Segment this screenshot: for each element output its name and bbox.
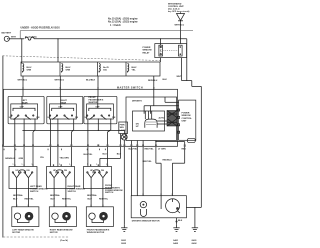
svg-text:YEL/GRN: YEL/GRN (60, 158, 70, 160)
master switch box (4, 89, 178, 146)
svg-text:DRIVER'S: DRIVER'S (132, 101, 142, 103)
fuse F1 80A (25, 35, 37, 40)
svg-text:RED/YEL: RED/YEL (145, 149, 155, 151)
lower switch left rear (9, 167, 48, 194)
svg-text:GRN: GRN (66, 70, 71, 72)
svg-text:BLU: BLU (88, 199, 93, 201)
switch module front passenger (84, 96, 117, 124)
svg-text:NEUTRAL: NEUTRAL (13, 194, 24, 197)
diode U1 (ICU driver triangle) (177, 12, 185, 21)
wire window lock switch down (100, 134, 121, 167)
motor left rear M1 (12, 207, 39, 234)
ground G501 (121, 224, 128, 245)
wire WHT/BLU from ICU to relay (175, 21, 185, 44)
svg-text:BLU/BLK: BLU/BLK (86, 79, 96, 81)
svg-text:BLK: BLK (163, 79, 168, 81)
switch to motor wires 1 (13, 189, 34, 207)
svg-text:OFF: OFF (95, 107, 100, 109)
relay contacts driver (dark blocks) (167, 111, 177, 127)
svg-text:BLU/YEL: BLU/YEL (84, 154, 94, 156)
neutral labels (13, 194, 98, 197)
wire color labels row (5, 149, 186, 164)
svg-text:1: 1 (96, 164, 97, 166)
svg-text:1: 1 (87, 164, 88, 166)
svg-text:BLU: BLU (13, 199, 18, 201)
svg-text:NEUTRAL: NEUTRAL (87, 194, 98, 197)
svg-text:1 : Clutch: 1 : Clutch (110, 24, 121, 27)
wire battery bypass down right (186, 39, 188, 81)
svg-text:WINDOW: WINDOW (182, 115, 191, 117)
bulb ground wire (123, 140, 125, 224)
wire coil C to module 3 (86, 76, 98, 96)
svg-text:DRIVER'S WINDOW MOTOR: DRIVER'S WINDOW MOTOR (132, 221, 160, 223)
driver box exits (131, 141, 184, 196)
svg-text:OFF: OFF (58, 107, 63, 109)
svg-text:GRN: GRN (19, 158, 24, 160)
illumination bulb (121, 134, 127, 140)
svg-text:BATTERY: BATTERY (2, 32, 12, 35)
svg-text:BLK: BLK (178, 220, 183, 222)
wire feed into coil box B (57, 39, 59, 62)
svg-text:MOTOR: MOTOR (12, 232, 20, 234)
battery B1 (2, 32, 12, 42)
junction dots (21, 38, 161, 142)
svg-text:BLK: BLK (117, 154, 122, 156)
svg-text:1: 1 (69, 164, 70, 166)
power window relay K1 (143, 44, 187, 58)
svg-text:WHT/BLU: WHT/BLU (55, 79, 65, 81)
svg-text:POWER: POWER (182, 113, 190, 115)
switch to motor wires 3 (88, 189, 109, 207)
svg-text:DN: DN (101, 170, 105, 172)
driver switch contacts (133, 111, 168, 131)
power window control unit (178, 100, 196, 140)
svg-text:AUTO: AUTO (159, 117, 165, 120)
svg-text:RED/YEL: RED/YEL (99, 199, 109, 201)
wire feed inside driver section (144, 97, 179, 114)
svg-text:BLU/: BLU/ (27, 67, 32, 69)
svg-text:SWITCH: SWITCH (30, 191, 39, 193)
svg-text:SWITCH: SWITCH (105, 192, 114, 194)
svg-text:(Cont'd): (Cont'd) (60, 239, 68, 242)
wire relay coil to ground stub (160, 58, 162, 62)
svg-text:WINDOW: WINDOW (143, 50, 152, 52)
svg-text:DN: DN (136, 123, 140, 125)
switch to motor wires 2 (51, 189, 72, 207)
svg-text:WHT/BLU: WHT/BLU (18, 79, 28, 81)
pin number labels above switch connectors (13, 164, 108, 166)
svg-text:MASTER: MASTER (89, 101, 98, 104)
svg-text:MOTOR: MOTOR (50, 232, 58, 234)
wire feed into coil box A (21, 39, 23, 64)
ground G401 b (192, 207, 199, 244)
continuation dashed line (3, 237, 70, 242)
connector squares row (2, 144, 186, 146)
wire motor right to feed (186, 206, 201, 208)
svg-text:G402: G402 (173, 242, 179, 245)
coil L3 (99, 64, 110, 73)
motor right rear M2 (49, 207, 76, 234)
svg-text:DN: DN (27, 170, 31, 172)
svg-text:SWITCH: SWITCH (68, 191, 77, 193)
svg-text:1: 1 (13, 164, 14, 166)
svg-text:DN: DN (75, 117, 79, 119)
wire coil B to module 2 (55, 76, 65, 96)
svg-text:RED/BLU: RED/BLU (148, 80, 158, 82)
svg-text:RED/YEL: RED/YEL (62, 199, 72, 201)
svg-text:RED/YEL: RED/YEL (143, 161, 153, 163)
lower switch right rear (47, 167, 86, 194)
svg-text:RED/BLU: RED/BLU (163, 159, 173, 161)
svg-text:WINDOW MOTOR: WINDOW MOTOR (87, 232, 105, 234)
wire drop to relay coil (160, 39, 162, 45)
switch module left rear (8, 96, 44, 124)
wire coil D to driver switch RED/BLU (148, 76, 167, 97)
lower switch front passenger (84, 167, 123, 195)
driver window motor box (131, 196, 186, 223)
driver section box (126, 97, 177, 141)
svg-text:DN: DN (36, 117, 40, 119)
motor front passenger M3 (86, 207, 113, 234)
svg-text:UNDER - HOOD FUSE/RELAY BOX: UNDER - HOOD FUSE/RELAY BOX (21, 27, 61, 30)
svg-text:G401: G401 (173, 239, 179, 242)
coil L2 (62, 64, 71, 73)
coil L4 (128, 64, 137, 73)
bus wire from modules to bulb (22, 130, 124, 134)
svg-text:G501: G501 (121, 240, 127, 242)
integrated control unit label (168, 3, 190, 14)
svg-text:RELAY: RELAY (143, 51, 150, 54)
svg-text:No.25: No.25 (103, 67, 110, 69)
svg-text:WHT: WHT (11, 37, 16, 39)
module 1 wires down (15, 119, 35, 167)
noise suppressor coil box row (21, 62, 160, 76)
svg-text:10A: 10A (103, 69, 107, 72)
svg-text:OFF: OFF (20, 107, 25, 109)
switch module right rear (47, 96, 83, 124)
svg-text:1: 1 (59, 164, 60, 166)
svg-text:1: 1 (32, 164, 33, 166)
wire driver motor to ground (176, 218, 183, 225)
svg-text:G402: G402 (192, 242, 198, 245)
svg-text:GRN: GRN (27, 70, 32, 72)
fuse notes text (108, 18, 138, 28)
svg-text:key OFF timer circuit): key OFF timer circuit) (168, 10, 190, 13)
wire left long branch (2, 56, 4, 238)
connector dashed line C (3, 56, 161, 61)
svg-text:GRN/BLU: GRN/BLU (5, 158, 15, 160)
svg-text:WHT/BLU: WHT/BLU (175, 25, 185, 27)
svg-text:BLU/: BLU/ (66, 67, 71, 69)
svg-text:RED: RED (182, 149, 187, 151)
svg-text:MASTER SWITCH: MASTER SWITCH (117, 87, 143, 90)
wire relay output WHT (177, 58, 202, 87)
module 2 wires down (50, 119, 73, 167)
coil L1 (23, 64, 32, 73)
svg-text:1: 1 (50, 164, 51, 166)
svg-text:CONTROL: CONTROL (182, 118, 193, 120)
wire battery to fuse box WHT (9, 37, 24, 39)
PWCU connector (187, 138, 195, 142)
svg-text:PWR: PWR (120, 125, 125, 127)
svg-text:RED/YEL: RED/YEL (25, 199, 35, 201)
svg-text:POWER: POWER (143, 47, 151, 49)
svg-text:BLU: BLU (103, 154, 108, 156)
window lock switch block (119, 122, 128, 134)
svg-text:UNIT: UNIT (182, 121, 188, 123)
svg-text:G502: G502 (121, 243, 127, 245)
wire right edge feed down (200, 86, 202, 207)
svg-text:WHT: WHT (177, 76, 182, 78)
svg-text:1: 1 (22, 164, 23, 166)
svg-text:BLU: BLU (51, 199, 56, 201)
svg-text:BLK/: BLK/ (132, 67, 137, 69)
svg-text:1: 1 (106, 164, 107, 166)
connector pin marks (14, 87, 173, 206)
svg-text:LT GRN: LT GRN (158, 149, 166, 151)
svg-text:NEUTRAL: NEUTRAL (50, 194, 61, 197)
under-hood fuse/relay box border (20, 31, 193, 39)
pin number marks on wires (4, 149, 106, 151)
svg-text:WIN: WIN (120, 127, 125, 129)
svg-text:BLU/YEL: BLU/YEL (129, 149, 139, 151)
svg-text:G401: G401 (192, 239, 198, 242)
svg-text:DN: DN (112, 117, 116, 119)
ground G401 a (173, 224, 180, 245)
module 3 wires down (88, 119, 111, 167)
svg-text:DN: DN (64, 170, 68, 172)
wire coil A to module 1 WHT/BLU (18, 76, 28, 96)
wire main feed to right (34, 38, 187, 40)
